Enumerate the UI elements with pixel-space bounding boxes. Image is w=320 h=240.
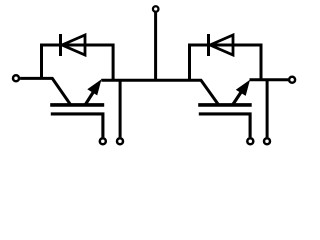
diode D2 frame (left vertical from bus, top run, right vertical to emitter wire) [190,45,262,81]
wire from terminal 2 down to AC bus [154,13,157,81]
IGBT Q2 body bar (upper) [198,103,252,107]
IGBT Q2 emitter diagonal (shaft) [233,91,242,105]
IGBT Q1 gate bar (lower) with gate lead down [51,114,103,137]
terminal 5 (aux emitter of Q1, open circle) [117,138,123,144]
diode D1 frame (anti-parallel loop: left vertical, top run, right vertical to AC bus) [42,45,114,81]
terminal 6 (gate of Q2, open circle) [247,138,253,144]
IGBT Q1 emitter diagonal (shaft) [85,90,94,105]
wire collector of Q1 (horizontal from terminal 1, corner into collector diagonal) [20,78,70,104]
IGBT Q1 emitter arrowhead (filled) [87,79,101,95]
wire AC bus (emitter Q1 to collector Q2) with corner into Q2 collector diagonal [101,80,218,105]
terminal 3 (right emitter terminal, open circle) [289,77,295,83]
diode D1 cathode bar [59,34,62,56]
terminal 1 (left collector terminal, open circle) [13,75,19,81]
wire emitter of Q2 to right terminal [250,78,289,81]
terminal 2 (top centre, open circle) [153,6,159,12]
IGBT Q2 gate bar (lower) with gate lead down [199,114,250,137]
terminal 4 (gate of Q1, open circle) [100,138,106,144]
terminal 7 (aux emitter of Q2, open circle) [264,138,270,144]
wire aux-emitter drop of Q2 (from emitter wire down) [266,80,269,137]
IGBT Q1 body bar (upper) [50,103,104,107]
diode D2 cathode bar [207,34,210,56]
wire aux-emitter drop of Q1 (from bus down) [119,80,122,137]
diode D2 triangle (anode, outline) [210,35,233,55]
diode D1 triangle (anode, outline) [62,35,85,55]
IGBT Q2 emitter arrowhead (filled) [236,80,250,96]
